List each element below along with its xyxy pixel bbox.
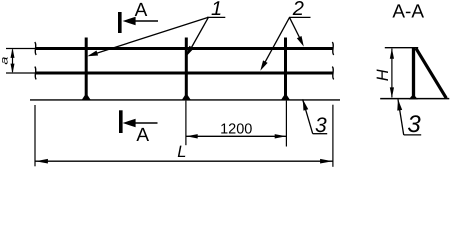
post 3 (item 1) — [284, 38, 287, 99]
A-A: ground line (item 3) — [380, 98, 449, 100]
bottom rail 2: thin left extension — [6, 72, 36, 74]
A-A: diagonal brace — [416, 48, 446, 98]
ground line (item 3) — [30, 99, 340, 101]
dimension H: top arrowhead — [390, 48, 394, 59]
dimension a: vertical dim line — [12, 50, 14, 73]
dimension a: bottom arrowhead — [11, 64, 15, 74]
dimension L: left extension line — [34, 105, 36, 166]
callout 1: leader to post 2 — [190, 17, 209, 51]
callout 3 main: shelf line — [313, 133, 328, 135]
bottom rail right break mark — [332, 67, 333, 80]
callout 2: shelf line — [289, 16, 311, 18]
post 2 (item 1) — [185, 38, 188, 99]
dimension L: left arrowhead — [35, 159, 48, 164]
section A mark bottom: arrow shaft — [134, 122, 158, 124]
dimension H: dim line — [391, 49, 393, 98]
A-A: top extension line / post cap — [385, 47, 418, 49]
callout 1: shelf line — [207, 16, 225, 18]
post 2 base flare — [182, 95, 191, 99]
svg-text:A: A — [135, 0, 148, 21]
dimension 1200: right arrowhead — [275, 134, 287, 138]
dimension L: right arrowhead — [320, 159, 333, 164]
callout 2: arrowhead at bottom rail — [260, 60, 267, 70]
dimension 1200: dim line — [186, 135, 286, 137]
dimension a: top arrowhead — [11, 48, 15, 58]
svg-text:A: A — [136, 125, 149, 146]
dimension 1200: left extension line — [185, 101, 187, 146]
A-A: post (item 1) — [412, 48, 415, 98]
section A mark bottom: arrowhead — [123, 119, 136, 128]
bottom rail left break mark — [35, 67, 36, 80]
top rail right break mark — [332, 42, 333, 55]
dimension L: right extension line — [332, 105, 334, 167]
callout 1: arrowhead at post 1 — [87, 51, 98, 57]
callout 2: arrowhead at top rail — [297, 36, 304, 47]
svg-text:1200: 1200 — [220, 121, 252, 137]
callout 3 main: leader line — [303, 99, 313, 133]
callout 3 section: shelf line — [404, 134, 422, 136]
svg-text:L: L — [177, 143, 186, 161]
svg-text:3: 3 — [407, 111, 421, 138]
post 1 base flare — [82, 95, 91, 99]
svg-text:3: 3 — [315, 114, 327, 137]
svg-text:H: H — [374, 69, 392, 81]
top rail 2: thin left extension — [6, 48, 36, 50]
svg-text:a: a — [0, 57, 10, 65]
bottom rail 2: thick bar — [36, 72, 334, 75]
dimension L: dim line — [35, 160, 332, 162]
section A mark top: thick bar — [118, 12, 122, 33]
svg-text:2: 2 — [292, 0, 304, 20]
callout 1: arrowhead at post 2 — [186, 46, 193, 56]
callout 3 section: arrowhead at ground — [397, 99, 402, 110]
section A mark top: arrow shaft — [135, 20, 158, 22]
dimension H: bottom arrowhead — [390, 87, 394, 98]
dimension 1200: right extension line — [285, 101, 287, 147]
A-A: post base flare — [409, 96, 418, 100]
callout 1: leader to post 1 — [90, 17, 209, 55]
post 3 base flare — [281, 95, 290, 99]
callout 3 section: leader line — [398, 99, 404, 134]
callout 2: leader to top rail — [290, 17, 303, 42]
top rail 2: thick bar — [36, 47, 334, 50]
section A mark bottom: thick bar — [119, 110, 123, 133]
dimension 1200: left arrowhead — [186, 134, 198, 138]
post 1 (item 1) — [85, 38, 88, 99]
callout 3 main: arrowhead at ground — [303, 99, 308, 110]
section A mark top: arrowhead — [123, 17, 136, 26]
svg-text:1: 1 — [211, 0, 222, 20]
callout 2: leader to bottom rail — [262, 17, 289, 67]
top rail left break mark — [35, 42, 36, 55]
svg-text:A-A: A-A — [392, 2, 424, 23]
